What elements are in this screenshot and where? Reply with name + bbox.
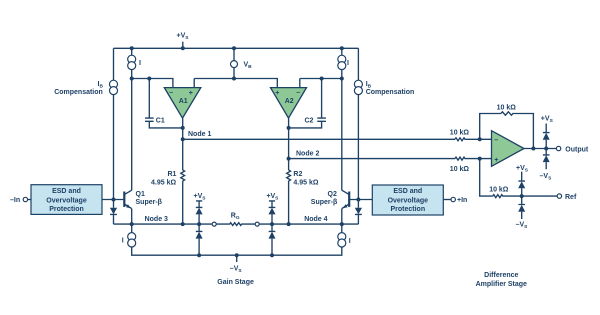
svg-text:R2: R2 [293, 171, 302, 178]
svg-text:ESD and: ESD and [393, 188, 422, 195]
svg-text:+: + [494, 157, 498, 164]
svg-text:I: I [349, 238, 351, 245]
svg-text:Super-β: Super-β [311, 199, 338, 206]
svg-text:+: + [275, 90, 279, 97]
svg-text:–In: –In [10, 197, 20, 204]
svg-text:–: – [296, 90, 300, 97]
svg-text:10 kΩ: 10 kΩ [450, 130, 470, 137]
svg-text:Node 1: Node 1 [188, 131, 211, 138]
svg-text:–: – [494, 137, 498, 144]
svg-text:Compensation: Compensation [54, 89, 103, 96]
svg-text:Q2: Q2 [328, 191, 337, 198]
svg-text:Overvoltage: Overvoltage [388, 197, 429, 204]
svg-text:10 kΩ: 10 kΩ [489, 187, 509, 194]
svg-text:R1: R1 [168, 171, 177, 178]
svg-text:–: – [169, 90, 173, 97]
svg-text:Amplifier Stage: Amplifier Stage [476, 281, 527, 288]
svg-text:C2: C2 [305, 117, 314, 124]
svg-text:I: I [122, 237, 124, 244]
svg-text:Compensation: Compensation [366, 89, 415, 96]
svg-text:Protection: Protection [390, 206, 425, 213]
svg-text:4.95 kΩ: 4.95 kΩ [293, 180, 318, 187]
svg-text:Node 2: Node 2 [296, 150, 319, 157]
svg-text:Output: Output [565, 146, 589, 153]
svg-text:Node 3: Node 3 [145, 216, 168, 223]
svg-text:4.95 kΩ: 4.95 kΩ [151, 180, 176, 187]
svg-text:Protection: Protection [49, 206, 84, 213]
svg-text:+: + [189, 90, 193, 97]
svg-text:A1: A1 [179, 98, 188, 105]
svg-text:Overvoltage: Overvoltage [46, 197, 87, 204]
svg-text:10 kΩ: 10 kΩ [450, 166, 470, 173]
svg-text:10 kΩ: 10 kΩ [497, 104, 517, 111]
svg-text:I: I [139, 60, 141, 67]
svg-text:Q1: Q1 [136, 191, 145, 198]
svg-text:C1: C1 [156, 117, 165, 124]
svg-text:+In: +In [457, 197, 467, 204]
svg-text:Gain Stage: Gain Stage [217, 279, 254, 286]
svg-text:I: I [347, 60, 349, 67]
svg-text:Ref: Ref [565, 194, 577, 201]
svg-text:A2: A2 [285, 98, 294, 105]
svg-text:Super-β: Super-β [136, 199, 163, 206]
svg-text:Node 4: Node 4 [304, 216, 327, 223]
svg-text:Difference: Difference [484, 272, 518, 279]
svg-text:ESD and: ESD and [52, 188, 81, 195]
